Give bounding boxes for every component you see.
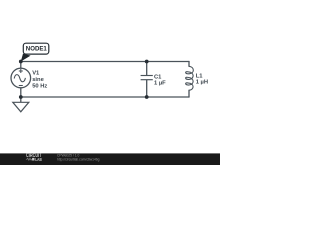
svg-text:50 Hz: 50 Hz bbox=[32, 83, 47, 89]
svg-text:V1: V1 bbox=[32, 70, 40, 76]
svg-text:http://circuitlab.com/c6w14bg: http://circuitlab.com/c6w14bg bbox=[57, 158, 100, 162]
svg-text:LAB: LAB bbox=[35, 157, 42, 163]
svg-text:L1: L1 bbox=[196, 73, 204, 79]
svg-text:C1: C1 bbox=[154, 74, 162, 80]
svg-text:1 µH: 1 µH bbox=[196, 80, 208, 86]
svg-text:1 µF: 1 µF bbox=[154, 81, 166, 87]
svg-text:sine: sine bbox=[32, 77, 44, 83]
svg-text:NODE1: NODE1 bbox=[26, 46, 48, 53]
